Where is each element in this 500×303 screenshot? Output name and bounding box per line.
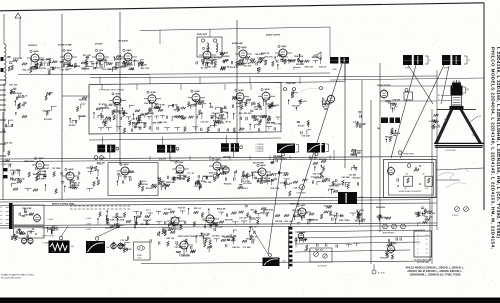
component cluster xyxy=(324,204,345,223)
wire xyxy=(140,27,330,31)
stage parts 6AU6 xyxy=(30,62,47,73)
transformer can xyxy=(330,57,349,64)
tube V304 6AU6 xyxy=(262,91,270,102)
svg-text:R53 1 MEG: R53 1 MEG xyxy=(122,172,133,174)
svg-text:C32 560: C32 560 xyxy=(349,175,357,177)
wire vertical bus xyxy=(361,80,363,223)
stage parts 6CB6 xyxy=(232,97,251,109)
svg-text:C91 470K: C91 470K xyxy=(227,239,237,242)
svg-text:R51 47: R51 47 xyxy=(146,187,153,190)
output transformer block B xyxy=(307,143,329,156)
component cluster xyxy=(376,206,391,221)
wire xyxy=(206,60,208,64)
svg-text:R29 1 MEG: R29 1 MEG xyxy=(203,176,214,178)
component cluster xyxy=(209,103,227,123)
tube heater a xyxy=(21,237,26,245)
svg-text:R68 6.8K: R68 6.8K xyxy=(220,52,229,54)
svg-text:C68 470K: C68 470K xyxy=(108,68,118,71)
svg-text:C1 47: C1 47 xyxy=(66,68,72,71)
tube label xyxy=(30,50,32,52)
svg-text:6AU6: 6AU6 xyxy=(123,163,129,166)
component cluster xyxy=(418,207,436,217)
IF transformer Z301 xyxy=(97,145,115,153)
svg-text:R85 1K: R85 1K xyxy=(159,183,166,185)
stage parts 6AV6 xyxy=(121,61,139,71)
svg-text:R64 560: R64 560 xyxy=(224,183,232,186)
component cluster xyxy=(112,55,122,72)
capacitor xyxy=(30,230,31,233)
tuner parts xyxy=(16,229,34,240)
wire vertical bus xyxy=(370,100,372,264)
wire xyxy=(69,181,71,185)
trimmer xyxy=(407,164,411,168)
wire xyxy=(429,198,431,261)
interlock plug xyxy=(138,246,145,250)
tube pilot a xyxy=(111,242,116,250)
svg-text:C77 .01: C77 .01 xyxy=(187,173,195,175)
stage parts V316 xyxy=(204,222,223,231)
svg-text:R41 47: R41 47 xyxy=(298,124,305,127)
svg-text:C23 .047: C23 .047 xyxy=(200,121,209,124)
svg-text:– 8: – 8 xyxy=(425,248,427,250)
svg-text:R58 .005: R58 .005 xyxy=(159,122,168,124)
svg-text:B+ 275V: B+ 275V xyxy=(378,273,385,275)
IF board inner bottom line xyxy=(89,138,281,140)
wire xyxy=(151,104,153,108)
lower mid parts row b xyxy=(97,217,247,226)
svg-text:R23 1K: R23 1K xyxy=(178,207,185,209)
height pot xyxy=(464,207,469,212)
stage parts sep xyxy=(172,173,189,182)
svg-text:G4: G4 xyxy=(438,100,440,102)
capacitor xyxy=(400,237,401,240)
tuner bottom parts xyxy=(11,229,24,240)
svg-text:R19 22K: R19 22K xyxy=(333,184,341,186)
remote control dashed panel xyxy=(70,206,130,209)
can terminal xyxy=(116,147,119,150)
svg-text:C76 270K: C76 270K xyxy=(145,113,155,115)
svg-text:R62 4.7K: R62 4.7K xyxy=(298,100,307,103)
svg-text:R62 68K: R62 68K xyxy=(314,177,322,179)
svg-text:C91 10K: C91 10K xyxy=(243,66,251,68)
wire xyxy=(188,97,192,99)
noise gate box xyxy=(108,163,158,196)
svg-text:SOUND IF: SOUND IF xyxy=(28,45,38,47)
svg-text:R31 470K: R31 470K xyxy=(141,223,151,226)
stage parts 6CB6 xyxy=(109,103,126,117)
bus wires right xyxy=(295,230,425,232)
wire xyxy=(294,211,298,213)
svg-text:R24 4.7K: R24 4.7K xyxy=(230,66,239,69)
wire xyxy=(176,244,180,246)
wire xyxy=(34,63,36,67)
svg-text:(27E): (27E) xyxy=(359,197,364,199)
tube heater b xyxy=(28,237,33,245)
svg-text:B+ BOOST: B+ BOOST xyxy=(318,266,327,268)
wire xyxy=(209,165,213,167)
wire xyxy=(97,226,120,237)
lower mid parts row 2 xyxy=(255,208,364,223)
svg-text:R81 68K: R81 68K xyxy=(163,230,171,232)
tube V401 vert osc xyxy=(298,207,306,218)
svg-text:R22 1 MEG: R22 1 MEG xyxy=(355,220,366,222)
vertical output transformer xyxy=(263,254,280,267)
horizontal oscillator module outline xyxy=(384,160,437,198)
component cluster xyxy=(91,162,106,187)
potentiometer xyxy=(383,224,388,229)
svg-text:R88 1 MEG: R88 1 MEG xyxy=(33,174,44,176)
stage parts 6T8 xyxy=(92,58,108,69)
yoke network parts xyxy=(295,232,310,252)
svg-text:R52 470K: R52 470K xyxy=(376,206,386,209)
bottom page edge black bar xyxy=(0,298,500,303)
tube V205 6AQ5 xyxy=(239,49,247,60)
svg-text:C63 1 MEG: C63 1 MEG xyxy=(244,175,255,177)
svg-text:FOCUS: FOCUS xyxy=(380,258,387,260)
wire xyxy=(3,84,5,152)
tube label xyxy=(34,157,36,159)
svg-text:C64 10K: C64 10K xyxy=(11,235,19,238)
svg-text:V HOLD: V HOLD xyxy=(452,215,459,217)
svg-text:R73 1 MEG: R73 1 MEG xyxy=(250,218,261,220)
svg-text:C44 100: C44 100 xyxy=(178,178,186,181)
svg-text:R24 1K: R24 1K xyxy=(103,107,110,110)
svg-text:– 8: – 8 xyxy=(425,239,427,241)
deflection yoke assembly xyxy=(442,55,461,65)
svg-text:R40 6.8K: R40 6.8K xyxy=(217,208,226,211)
svg-text:R8 22K: R8 22K xyxy=(275,221,282,223)
CRT bias parts xyxy=(431,114,441,129)
svg-text:C16 560: C16 560 xyxy=(212,235,220,237)
tuner parts xyxy=(19,208,34,216)
wire bottom bus xyxy=(141,261,430,264)
bus-to-IF tie wires xyxy=(99,77,101,85)
svg-text:C98 .022: C98 .022 xyxy=(122,58,131,60)
tube V404 6SN7 horiz osc xyxy=(388,166,395,176)
width coil xyxy=(381,118,400,124)
svg-text:B+: B+ xyxy=(1,223,3,225)
svg-text:L18: L18 xyxy=(404,188,407,190)
stage parts osc xyxy=(294,213,315,224)
tube label xyxy=(95,49,97,51)
interlock box xyxy=(134,242,151,260)
component cluster xyxy=(158,227,172,236)
tuner input parts xyxy=(9,84,22,110)
stage parts 6AQ5 xyxy=(238,56,255,66)
svg-text:C75 6.8K: C75 6.8K xyxy=(302,135,311,137)
svg-text:B+: B+ xyxy=(1,215,3,217)
svg-text:C80 .01: C80 .01 xyxy=(250,226,258,228)
svg-text:HORIZ FREQ: HORIZ FREQ xyxy=(403,153,415,155)
svg-text:R51 .047: R51 .047 xyxy=(83,54,92,57)
svg-text:R45 68K: R45 68K xyxy=(222,235,230,238)
component cluster xyxy=(246,226,257,241)
trimmers on box xyxy=(201,39,204,42)
component cluster xyxy=(255,115,276,128)
wire xyxy=(62,175,66,177)
component cluster xyxy=(105,215,124,230)
wire xyxy=(120,56,124,58)
svg-text:6CB6: 6CB6 xyxy=(115,94,121,96)
component cluster xyxy=(158,177,170,190)
wire xyxy=(314,151,316,161)
wire xyxy=(254,171,258,173)
component cluster xyxy=(245,206,270,225)
svg-text:R84 470K: R84 470K xyxy=(265,208,275,211)
wire bus xyxy=(0,200,430,202)
wire xyxy=(124,176,126,180)
svg-text:C37 .047: C37 .047 xyxy=(120,239,129,242)
tube pilot b xyxy=(118,242,123,250)
wire xyxy=(265,102,267,106)
pot xyxy=(323,254,327,258)
svg-text:→ +260V: → +260V xyxy=(84,224,92,226)
tuner section box 1 xyxy=(14,205,45,225)
svg-text:3. 22D4136: 3. 22D4136 xyxy=(256,149,264,151)
svg-text:R21 47: R21 47 xyxy=(51,226,58,229)
component cluster xyxy=(271,156,284,164)
stage parts out xyxy=(176,246,196,258)
component cluster xyxy=(134,215,152,228)
component cluster xyxy=(297,120,311,137)
horizontal oscillator inner box xyxy=(389,163,434,196)
schematic right border xyxy=(483,3,485,210)
component cluster xyxy=(234,170,255,190)
svg-text:R78 .047: R78 .047 xyxy=(97,162,106,165)
tuner coil parts xyxy=(3,120,14,132)
tube label xyxy=(147,91,149,93)
svg-text:→ +140V: → +140V xyxy=(84,218,92,220)
svg-text:22D4153, HM, M, 22D4154, L, 22: 22D4153, HM, M, 22D4154, L, 22D4159, 22D… xyxy=(407,270,463,273)
wire vertical bus xyxy=(344,63,346,168)
svg-text:L 22D4159, L 22D4160, L 22DN41: L 22D4159, L 22D4160, L 22DN4146HM, L 22… xyxy=(496,47,500,238)
svg-text:R97 120K: R97 120K xyxy=(260,213,270,215)
component cluster xyxy=(169,103,187,121)
wire vertical bus xyxy=(61,14,63,200)
tube label xyxy=(235,89,237,91)
svg-text:C62 .047: C62 .047 xyxy=(380,217,389,220)
wire xyxy=(61,226,68,237)
svg-text:4. 22D4137: 4. 22D4137 xyxy=(256,151,264,153)
svg-text:R16 270K: R16 270K xyxy=(270,188,280,190)
svg-text:R84 4.7K: R84 4.7K xyxy=(261,52,270,55)
svg-text:AUDIO OUTPUT: AUDIO OUTPUT xyxy=(266,34,281,37)
svg-text:C74 .022: C74 .022 xyxy=(4,141,13,144)
component cluster xyxy=(345,165,361,189)
tube V303 6CB6 xyxy=(236,91,244,102)
component cluster xyxy=(254,52,270,72)
svg-text:REMOTE CONTROL PANEL: REMOTE CONTROL PANEL xyxy=(52,203,76,206)
vert section parts row xyxy=(150,235,258,249)
svg-text:1 –: 1 – xyxy=(417,253,419,255)
wire xyxy=(258,95,262,97)
svg-text:BRIGHTNESS: BRIGHTNESS xyxy=(383,233,395,235)
wire xyxy=(67,62,69,66)
wire vertical bus xyxy=(379,63,381,232)
wire bus xyxy=(0,226,437,228)
svg-text:6AU6: 6AU6 xyxy=(260,164,266,167)
tube V400 AGC xyxy=(258,167,266,178)
wire xyxy=(431,109,433,264)
svg-text:R76 22K: R76 22K xyxy=(44,119,52,121)
trap coil slugs xyxy=(3,168,8,171)
tube V312 noise gate xyxy=(121,166,129,177)
potentiometer xyxy=(314,252,319,257)
svg-text:R54 560: R54 560 xyxy=(222,55,230,58)
stage parts gate xyxy=(117,171,135,186)
wire xyxy=(436,168,484,170)
svg-text:R4 560: R4 560 xyxy=(69,124,76,127)
svg-text:R66 .047: R66 .047 xyxy=(389,242,398,245)
stage parts 6T8 xyxy=(202,58,218,67)
wire xyxy=(169,153,171,159)
component cluster xyxy=(46,58,56,75)
svg-text:C23 470K: C23 470K xyxy=(122,248,132,251)
mid strip parts row xyxy=(11,168,99,181)
wire IF input xyxy=(62,95,89,97)
svg-text:C83 10K: C83 10K xyxy=(388,103,396,105)
tube V313 sync sep xyxy=(176,164,184,175)
svg-text:C64 .005: C64 .005 xyxy=(324,204,333,207)
wire xyxy=(102,137,104,145)
wire sound bus xyxy=(18,74,150,76)
svg-text:R41 47: R41 47 xyxy=(74,182,81,185)
wire xyxy=(380,85,450,87)
svg-text:R81 10K: R81 10K xyxy=(284,183,292,185)
svg-text:R81 100: R81 100 xyxy=(307,220,315,222)
svg-text:R50 68K: R50 68K xyxy=(295,216,303,218)
svg-text:C31 47: C31 47 xyxy=(174,246,181,249)
svg-text:R96 47: R96 47 xyxy=(43,167,50,170)
svg-text:→ +135V: → +135V xyxy=(84,229,92,231)
can terminals small tubes xyxy=(94,156,98,160)
svg-text:6CB6: 6CB6 xyxy=(238,90,244,92)
svg-text:(21) 470: (21) 470 xyxy=(159,157,166,160)
tube label xyxy=(297,204,299,206)
svg-text:R86 68K: R86 68K xyxy=(319,159,327,161)
svg-text:6AQ5: 6AQ5 xyxy=(281,45,287,48)
component cluster xyxy=(355,211,366,224)
mid strip parts row 2 xyxy=(159,172,262,186)
wire bus xyxy=(0,159,360,161)
svg-text:R81 100: R81 100 xyxy=(167,238,175,240)
tube label xyxy=(191,90,193,92)
svg-text:C16 1 MEG: C16 1 MEG xyxy=(334,216,345,218)
svg-text:R33 330: R33 330 xyxy=(295,240,303,242)
antenna terminal xyxy=(15,13,21,18)
wire xyxy=(27,57,31,59)
svg-text:HORIZONTAL OSCILLATOR: HORIZONTAL OSCILLATOR xyxy=(399,190,422,193)
svg-text:C61 120K: C61 120K xyxy=(273,156,283,158)
tube V314 sync amp xyxy=(213,161,221,172)
potentiometer xyxy=(392,224,397,229)
wire top bus extension xyxy=(281,81,345,84)
svg-text:R40 .022: R40 .022 xyxy=(193,99,202,102)
wire lead to vert output transformer xyxy=(268,156,282,254)
svg-text:6AQ5: 6AQ5 xyxy=(241,46,247,49)
speaker xyxy=(314,52,321,60)
antenna coil L100 xyxy=(4,44,6,84)
wire xyxy=(441,95,452,97)
svg-text:B+: B+ xyxy=(1,211,3,213)
svg-text:R37 .01: R37 .01 xyxy=(281,56,289,58)
wire B+ bus xyxy=(90,76,437,78)
vertical blocking transformer T400 xyxy=(338,192,357,204)
stage parts V315 xyxy=(168,222,182,234)
svg-text:R24 10K: R24 10K xyxy=(124,175,132,178)
svg-text:R99 270K: R99 270K xyxy=(23,208,33,210)
tube V310 video amp xyxy=(36,160,44,171)
tube label xyxy=(238,46,240,48)
divider parts xyxy=(47,226,59,235)
wire bus xyxy=(0,203,437,206)
osc parts xyxy=(397,178,398,181)
audio strip parts row xyxy=(196,55,327,69)
component cluster xyxy=(322,98,332,110)
svg-text:R3 120K: R3 120K xyxy=(53,168,61,170)
svg-text:G2: G2 xyxy=(438,95,440,97)
svg-text:C50 1 MEG: C50 1 MEG xyxy=(329,186,340,188)
tube V100 oscillator xyxy=(34,213,41,223)
svg-text:C82 .022: C82 .022 xyxy=(323,103,332,105)
tube label xyxy=(257,164,259,166)
svg-text:C11 330: C11 330 xyxy=(256,181,264,183)
wire bus xyxy=(0,223,437,226)
tube V206 6AQ5 xyxy=(279,48,287,59)
contrast control R420 xyxy=(299,184,304,189)
tube focus rectifier xyxy=(388,244,395,254)
sync parts xyxy=(353,112,366,128)
svg-text:C87 .022: C87 .022 xyxy=(254,106,263,108)
svg-text:L18: L18 xyxy=(405,174,408,176)
svg-text:(29): (29) xyxy=(71,246,74,248)
b+ node xyxy=(372,270,376,274)
tube V200 6AU6 xyxy=(31,53,39,64)
svg-text:C85 .005: C85 .005 xyxy=(313,174,322,176)
wire xyxy=(116,106,118,110)
svg-text:VIDEO DET: VIDEO DET xyxy=(286,83,297,85)
svg-text:R75 12K: R75 12K xyxy=(125,65,133,67)
svg-text:PHILCO MODELS 22D4034-L, 22D41: PHILCO MODELS 22D4034-L, 22D4140, L, 22D… xyxy=(406,267,465,270)
wire xyxy=(144,98,148,100)
left edge parts xyxy=(2,141,13,167)
svg-text:R9 .022: R9 .022 xyxy=(244,113,252,115)
svg-text:1 –: 1 – xyxy=(417,235,419,237)
component cluster xyxy=(415,212,434,226)
svg-text:R99 1 MEG: R99 1 MEG xyxy=(144,103,155,105)
svg-text:C58 68K: C58 68K xyxy=(195,235,203,237)
component cluster xyxy=(313,159,328,185)
svg-text:6CB6: 6CB6 xyxy=(194,91,200,93)
wire xyxy=(183,250,185,254)
svg-text:R68 .005: R68 .005 xyxy=(315,250,324,252)
horiz freq parts xyxy=(351,149,362,157)
svg-text:VIDEO OUT: VIDEO OUT xyxy=(24,161,35,163)
svg-text:1ST AUDIO: 1ST AUDIO xyxy=(118,40,129,43)
horizontal output transformer T402 xyxy=(403,55,423,65)
svg-text:R96 .022: R96 .022 xyxy=(305,67,314,69)
svg-text:C37 1 MEG: C37 1 MEG xyxy=(112,217,123,219)
wire xyxy=(380,100,437,102)
component cluster xyxy=(138,180,157,191)
svg-text:R83 1K: R83 1K xyxy=(41,59,48,61)
svg-text:C46 47: C46 47 xyxy=(236,102,243,105)
svg-text:R36 22K: R36 22K xyxy=(176,173,184,175)
boost section parts row xyxy=(295,240,360,252)
svg-text:6T8 DET: 6T8 DET xyxy=(95,44,103,46)
IF transformer Z303 xyxy=(221,143,239,152)
wire xyxy=(39,170,41,174)
